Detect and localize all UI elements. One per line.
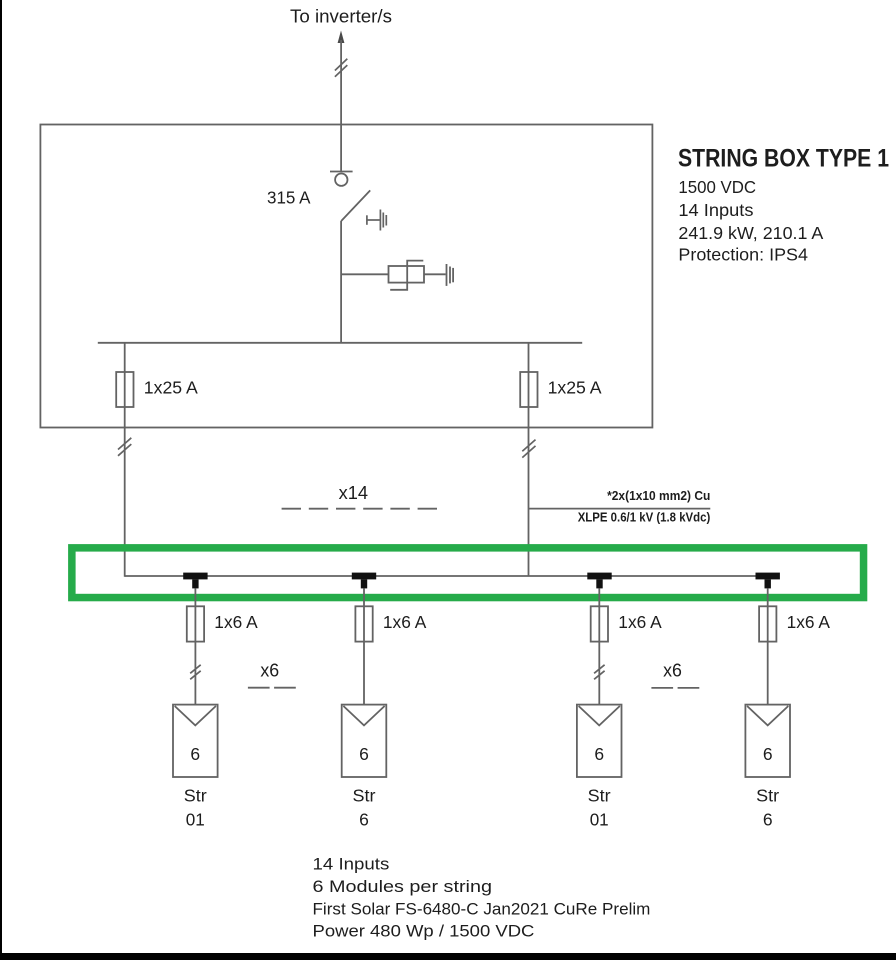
string 2: PV module	[342, 705, 387, 777]
string 3: wire tap to fuse	[598, 588, 600, 641]
tap connector T1	[183, 573, 207, 589]
svg-text:1x25 A: 1x25 A	[144, 378, 198, 398]
wire: right output drop	[528, 343, 530, 407]
ground symbol E2 (SPD earth)	[447, 264, 454, 286]
svg-text:1500 VDC: 1500 VDC	[678, 177, 756, 197]
wire: switch to DC bus	[340, 221, 342, 343]
svg-text:6: 6	[359, 809, 369, 829]
svg-text:First Solar FS-6480-C Jan2021: First Solar FS-6480-C Jan2021 CuRe Preli…	[313, 900, 651, 919]
x14 dashed continuation line	[282, 508, 438, 510]
wire: feeder riser to inverter	[340, 40, 342, 172]
svg-text:Str: Str	[353, 786, 376, 806]
string 4: wire tap to fuse	[767, 588, 769, 641]
arrow to inverter	[338, 31, 345, 44]
cable break marks on feeder	[335, 59, 347, 77]
disconnect switch: blade	[341, 190, 370, 221]
string 4: wire fuse to module	[767, 642, 769, 705]
svg-text:6: 6	[594, 744, 604, 764]
svg-text:315 A: 315 A	[267, 188, 311, 208]
wire: left output drop	[124, 343, 126, 407]
green highlight frame	[72, 548, 864, 598]
svg-text:Str: Str	[756, 786, 779, 806]
svg-text:6: 6	[763, 809, 773, 829]
string 1: wire fuse to module	[194, 642, 196, 705]
svg-text:x14: x14	[339, 483, 368, 503]
svg-text:STRING BOX TYPE 1: STRING BOX TYPE 1	[678, 145, 889, 173]
svg-text:To inverter/s: To inverter/s	[290, 7, 392, 27]
string 3: fuse 1x6A	[591, 606, 608, 641]
string 1: fuse 1x6A	[187, 606, 204, 641]
string 3: cable break marks	[594, 665, 605, 680]
tap connector T4	[756, 573, 780, 589]
string box enclosure	[40, 125, 652, 428]
svg-text:1x6 A: 1x6 A	[787, 612, 831, 632]
string 1: PV module	[173, 705, 218, 777]
bottom page edge bar	[0, 953, 896, 960]
cable spec pointer line	[529, 508, 711, 510]
left page edge bar	[0, 0, 2, 960]
svg-text:01: 01	[590, 809, 609, 829]
ground symbol E1 (switch earth)	[367, 210, 386, 231]
SPD body	[389, 266, 425, 283]
wire: SPD to ground	[424, 273, 446, 275]
tap connector T2	[352, 573, 376, 589]
svg-text:6: 6	[190, 744, 200, 764]
svg-text:14 Inputs: 14 Inputs	[313, 854, 390, 873]
svg-text:XLPE 0.6/1 kV (1.8 kVdc): XLPE 0.6/1 kV (1.8 kVdc)	[578, 511, 711, 525]
svg-text:Str: Str	[588, 786, 611, 806]
string 1: cable break marks	[190, 665, 201, 680]
svg-text:x6: x6	[663, 661, 682, 681]
string 2: wire tap to fuse	[363, 588, 365, 641]
cable break marks on left drop	[118, 438, 131, 456]
fuse 1x25A left	[116, 372, 133, 407]
string 4: fuse 1x6A	[759, 606, 776, 641]
string 3: PV module	[577, 705, 622, 777]
DC bus in string box	[98, 342, 582, 344]
svg-text:Protection: IPS4: Protection: IPS4	[678, 244, 808, 264]
fuse 1x25A right	[520, 372, 537, 407]
svg-text:14 Inputs: 14 Inputs	[678, 200, 753, 220]
svg-text:1x6 A: 1x6 A	[618, 612, 662, 632]
cable break marks on right drop	[522, 440, 535, 458]
string 2: wire fuse to module	[363, 642, 365, 705]
svg-text:6 Modules per string: 6 Modules per string	[313, 877, 493, 896]
svg-text:1x6 A: 1x6 A	[214, 612, 258, 632]
input bus wire	[125, 575, 768, 577]
svg-text:6: 6	[763, 744, 773, 764]
svg-text:*2x(1x10 mm2) Cu: *2x(1x10 mm2) Cu	[607, 489, 710, 503]
wire: right drop through box wall	[528, 407, 530, 576]
svg-text:Power 480 Wp / 1500 VDC: Power 480 Wp / 1500 VDC	[313, 922, 535, 941]
svg-text:1x25 A: 1x25 A	[548, 378, 602, 398]
string 1: wire tap to fuse	[194, 588, 196, 641]
SPD disconnect zigzag	[390, 261, 423, 290]
wire: left drop through box wall	[124, 407, 126, 577]
string 4: PV module	[745, 705, 790, 777]
string 3: wire fuse to module	[598, 642, 600, 705]
wire: SPD branch	[341, 273, 388, 275]
svg-text:1x6 A: 1x6 A	[383, 612, 427, 632]
svg-text:01: 01	[186, 809, 205, 829]
disconnect switch: hinge circle	[335, 174, 347, 186]
svg-text:Str: Str	[184, 786, 207, 806]
svg-text:6: 6	[359, 744, 369, 764]
string 2: fuse 1x6A	[355, 606, 372, 641]
disconnect switch: fixed contact tick	[330, 171, 353, 173]
svg-text:241.9 kW, 210.1 A: 241.9 kW, 210.1 A	[678, 223, 823, 243]
tap connector T3	[587, 573, 611, 589]
svg-text:x6: x6	[260, 661, 279, 681]
